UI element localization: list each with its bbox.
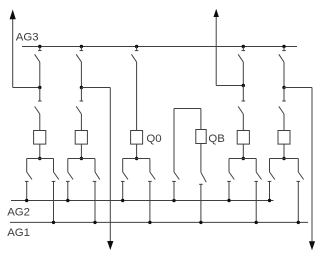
wire bay2 right branch drop [94,159,96,173]
wire bay2 to breaker [80,114,82,131]
junction dot bay2 on AG3 [80,45,83,48]
svg-text:AG2: AG2 [7,206,30,218]
disconnector bay2 lower [76,101,83,114]
wire bay2 middle vertical [80,88,82,102]
wire bay4 selector bar [229,158,256,160]
junction dot bay5 on AG3 [282,45,285,48]
disconnector bay1 to AG2 [25,172,32,185]
wire from left arrow to bay1 [13,87,40,89]
junction dot bay2 bar [80,157,83,160]
disconnector coupler AG2 side [172,172,179,185]
disconnector bay3 upper [131,47,138,63]
junction dot bay4 tap [242,84,245,87]
wire bay1 right branch to AG1 [53,185,55,222]
svg-text:Q0: Q0 [146,133,161,145]
junction dot bay5 on AG1 [297,221,300,224]
wire bay4 breaker to bar [242,144,244,158]
junction dot bay1 on AG2 [25,199,28,202]
disconnector coupler AG1 side [199,172,206,189]
wire bay4 to breaker [242,114,244,131]
junction dot bay2 on AG1 [93,221,96,224]
junction dot coupler on AG2 [172,199,175,202]
wire bay1 to breaker [39,114,41,131]
wire coupler left leg lower [173,185,175,201]
disconnector bay5 to AG1 [297,172,304,185]
junction dot bay4 on AG1 [255,221,258,224]
junction dot bay3 bar [135,157,138,160]
disconnector bay5 upper [279,47,286,63]
wire bay5 middle vertical [283,88,285,102]
junction dot bay3 on AG2 [121,199,124,202]
wire bay3 left branch drop [122,159,124,173]
junction dot bay3 on AG3 [135,45,138,48]
wire bay5 right branch drop [297,159,299,173]
disconnector bay1 upper (bus side) [35,47,42,63]
wire bay3 right branch to AG1 [149,185,151,222]
disconnector bay4 to AG2 [227,172,234,185]
wire bay4 upper vertical [242,62,244,86]
wire bay4 right branch to AG1 [255,185,257,222]
junction dot bay1 on AG1 [52,221,55,224]
wire coupler top horizontal [174,108,201,110]
wire coupler right leg to breaker [200,109,202,130]
wire bay2 tap to feeder [81,87,110,89]
junction dot bay3 on AG1 [148,221,151,224]
wire bay1 selector bar [27,158,54,160]
circuit breaker bay4 [237,131,249,145]
wire bay3 selector bar [123,158,150,160]
junction dot bay1 tap [38,86,41,89]
wire bay4 left branch to AG2 [228,185,230,201]
junction dot bay1 on AG3 [38,45,41,48]
wire bay4 right branch drop [255,159,257,173]
wire bay3 right branch drop [149,159,151,173]
disconnector bay4 upper [238,47,245,63]
disconnector bay5 lower [279,101,286,114]
junction dot bay4 on AG2 [227,199,230,202]
junction dot bay2 on AG2 [66,199,69,202]
wire bay5 upper vertical [283,62,285,88]
wire bay5 to breaker [283,114,285,131]
svg-text:AG1: AG1 [7,227,30,239]
wire bay5 left branch drop [269,159,271,173]
wire bay5 tap to feeder [284,87,312,89]
svg-text:AG3: AG3 [16,32,39,44]
disconnector bay5 to AG2 [268,172,275,185]
junction dot bay5 tap [282,86,285,89]
wire bay2 left branch drop [67,159,69,173]
junction dot bay4 on AG3 [242,45,245,48]
wire bay2 upper vertical [80,62,82,88]
wire bay5 selector bar [270,158,299,160]
junction dot bay1 bar [38,157,41,160]
wire bay4 middle vertical [242,86,244,102]
wire bay1 middle vertical [39,88,41,102]
wire coupler left leg upper [173,109,175,173]
circuit breaker Q0 [131,131,143,145]
busbar AG2 [11,200,274,202]
wire bay2 selector bar [68,158,95,160]
wire bay2 left branch to AG2 [67,185,69,201]
wire bay4 left branch drop [228,159,230,173]
wire bay1 left branch to AG2 [26,185,28,201]
wire coupler below breaker [200,144,202,173]
wire bay1 left branch drop [26,159,28,173]
disconnector bay4 lower [238,101,245,114]
wire coupler to AG1 [200,190,202,223]
wire bay5 left branch to AG2 [269,185,271,201]
disconnector bay1 lower [35,101,42,114]
circuit breaker QB [196,130,206,144]
wire bay5 breaker to bar [283,144,285,158]
incoming line arrow (top left) [10,10,16,88]
wire bay3 left branch to AG2 [122,185,124,201]
wire bay1 breaker to bar [39,144,41,158]
disconnector bay2 to AG2 [66,172,73,185]
junction dot bay5 on AG2 [268,199,271,202]
junction dot bay5 bar [282,157,285,160]
wire bay3 vertical to breaker [136,62,138,131]
wire bay5 right branch to AG1 [297,185,299,222]
wire bay2 right branch to AG1 [94,185,96,222]
disconnector bay3 to AG1 [148,172,155,185]
svg-text:QB: QB [208,133,224,145]
wire bay1 right branch drop [53,159,55,173]
circuit breaker bay5 [278,131,290,145]
wire bay3 breaker to bar [136,144,138,158]
wire bay2 breaker to bar [80,144,82,158]
circuit breaker bay2 [75,131,87,145]
busbar AG1 [10,221,308,223]
wire bay1 upper vertical [39,62,41,88]
incoming line arrow (top right) [214,9,219,86]
circuit breaker bay1 [34,131,46,145]
junction dot coupler on AG1 [199,221,202,224]
disconnector bay2 upper [76,47,83,63]
junction dot bay4 bar [242,157,245,160]
feeder line down (arrow) bay5 [309,88,315,251]
disconnector bay1 to AG1 [52,172,59,185]
disconnector bay4 to AG1 [254,172,261,185]
wire from right arrow to bay4 [216,85,243,87]
busbar AG3 [22,46,297,48]
feeder line down (arrow) bay2 [107,88,113,251]
disconnector bay2 to AG1 [93,172,100,185]
disconnector bay3 to AG2 [121,172,128,185]
junction dot bay2 tap [80,86,83,89]
